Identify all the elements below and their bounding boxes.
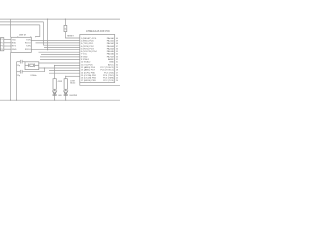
- junction chain A row i12: [54, 65, 55, 66]
- connector DB9 box: [11, 37, 31, 52]
- svg-text:PC2 (TCK): PC2 (TCK): [103, 80, 114, 82]
- wire rail1 drop to row i5: [47, 19, 49, 50]
- wire row i9 stub: [40, 59, 80, 61]
- svg-text:PA7 A7: PA7 A7: [107, 55, 115, 58]
- svg-text:P2: P2: [1, 42, 3, 44]
- wire row i1 DB9 to IC: [31, 39, 80, 41]
- svg-text:BUZZ: BUZZ: [70, 83, 76, 85]
- svg-text:P1: P1: [1, 39, 3, 41]
- resistor R3 chain B: [64, 79, 67, 90]
- DB9 top pin stubs: [17, 36, 19, 37]
- wire row i15 stub: [49, 72, 80, 74]
- wire cap1 leads: [17, 61, 21, 63]
- junction GND chain B: [65, 100, 66, 101]
- svg-text:R1OU: R1OU: [25, 43, 31, 45]
- svg-text:22p: 22p: [17, 75, 20, 77]
- DB9 inside right labels: [25, 39, 31, 51]
- wire header pins to DB9: [4, 39, 11, 41]
- LED D2 chain B: [64, 91, 68, 95]
- wire reset resistor top: [64, 19, 66, 25]
- svg-text:15 (OC1A) PB1: 15 (OC1A) PB1: [81, 74, 97, 77]
- svg-text:T1IN: T1IN: [26, 39, 31, 41]
- junction T row i5: [47, 49, 48, 50]
- svg-text:RXD: RXD: [12, 43, 17, 45]
- svg-text:R2OU: R2OU: [25, 49, 31, 51]
- wire rail 2: [0, 21, 44, 23]
- svg-text:GND: GND: [12, 49, 17, 51]
- svg-text:PA1 A1: PA1 A1: [107, 39, 115, 42]
- wire reset resistor bottom to row i0: [65, 32, 79, 38]
- svg-text:PA0 A0: PA0 A0: [107, 37, 115, 40]
- junction GND x16.5: [16, 100, 17, 101]
- crystal box: [25, 62, 39, 70]
- svg-text:PA6 A6: PA6 A6: [107, 53, 115, 56]
- capacitor C1 plates: [19, 60, 21, 64]
- svg-text:TXD: TXD: [12, 39, 17, 41]
- wire vertical left bus upper: [10, 19, 12, 37]
- svg-text:ATMEGA16 DIP-PIN: ATMEGA16 DIP-PIN: [86, 30, 110, 33]
- IC left pin labels: [81, 38, 98, 82]
- wire row i13 XTAL2 from crystal: [39, 67, 80, 69]
- svg-text:24: 24: [116, 80, 118, 82]
- wire rail2 drop to row i3: [44, 22, 80, 45]
- junction cap2 riser on i13: [44, 67, 45, 68]
- wire row i5 DB9 to IC: [31, 49, 80, 51]
- resistor R1 reset pullup: [64, 25, 67, 31]
- svg-text:P3: P3: [1, 46, 3, 48]
- IC right pin labels: [100, 37, 114, 82]
- svg-text:AREF: AREF: [108, 58, 114, 61]
- connector J1 header box: [0, 38, 3, 51]
- svg-text:P4: P4: [1, 49, 3, 51]
- svg-text:470R: 470R: [58, 81, 63, 83]
- resistor R2 chain A: [53, 79, 56, 90]
- wire VCC rail top: [0, 18, 120, 20]
- wire row i4 stub: [44, 47, 80, 49]
- svg-text:PA4 A4: PA4 A4: [107, 47, 115, 50]
- wire chain B vertical: [65, 76, 67, 78]
- junction chain B row i16: [65, 76, 66, 77]
- junction GND chain A: [54, 100, 55, 101]
- wire row i17 chain B to IC: [66, 75, 80, 77]
- svg-text:13 (AIN1) PD7: 13 (AIN1) PD7: [81, 69, 96, 72]
- junction rail1 x47.6: [47, 19, 48, 20]
- svg-text:RESET: RESET: [67, 36, 74, 38]
- wire row i14 stub: [49, 70, 80, 72]
- wire under IC: [80, 83, 120, 86]
- svg-text:T2IN: T2IN: [26, 46, 31, 48]
- DB9 inside left labels: [12, 39, 17, 51]
- wire cap2 leads and riser to XTAL2: [17, 71, 21, 73]
- svg-text:PA5 A5: PA5 A5: [107, 50, 115, 53]
- wire row i6 stub: [39, 51, 80, 53]
- svg-text:RTS: RTS: [12, 46, 17, 48]
- wire chain A vertical: [54, 66, 56, 79]
- LED D1 chain A: [53, 91, 57, 95]
- wire row i11 XTAL1 from crystal: [39, 62, 80, 64]
- svg-text:LED: LED: [58, 95, 62, 97]
- wire vertical left bus lower: [10, 52, 12, 100]
- IC U1 ATMEGA16 box: [80, 35, 115, 83]
- wire cap bus vertical: [16, 62, 18, 100]
- wire row i8 stub: [40, 56, 80, 58]
- junction GND x10.5: [10, 100, 11, 101]
- wire row i7 stub: [41, 54, 80, 56]
- junction rail1 x65.4: [65, 19, 66, 20]
- svg-text:AVCC: AVCC: [108, 63, 114, 66]
- svg-text:PA3 A3: PA3 A3: [107, 45, 115, 48]
- wire row i2 DB9 to IC: [36, 42, 80, 44]
- wire GND rail bottom: [0, 99, 120, 101]
- svg-text:DB9 M: DB9 M: [19, 35, 26, 37]
- svg-text:8 MHz: 8 MHz: [31, 75, 37, 77]
- wire rail 3: [0, 24, 40, 26]
- crystal X1 symbol: [28, 64, 30, 68]
- wire rail3 jog to DB9 top: [36, 25, 40, 37]
- svg-text:9 XTAL1: 9 XTAL1: [81, 58, 90, 61]
- wire row i12 chain A to IC: [55, 65, 80, 67]
- svg-text:PA2 A2: PA2 A2: [107, 42, 115, 45]
- IC right outside pin numbers: [116, 38, 118, 82]
- capacitor C2 plates: [19, 70, 21, 74]
- svg-text:22p: 22p: [17, 65, 20, 67]
- svg-text:BUZZER: BUZZER: [70, 95, 78, 97]
- svg-text:17 (MOSI) PB3: 17 (MOSI) PB3: [81, 80, 97, 82]
- svg-text:1k: 1k: [65, 29, 67, 31]
- header J1 labels: [1, 39, 3, 51]
- svg-text:10 XTAL2: 10 XTAL2: [81, 61, 91, 64]
- svg-text:12 (AIN0) PD6: 12 (AIN0) PD6: [81, 66, 96, 69]
